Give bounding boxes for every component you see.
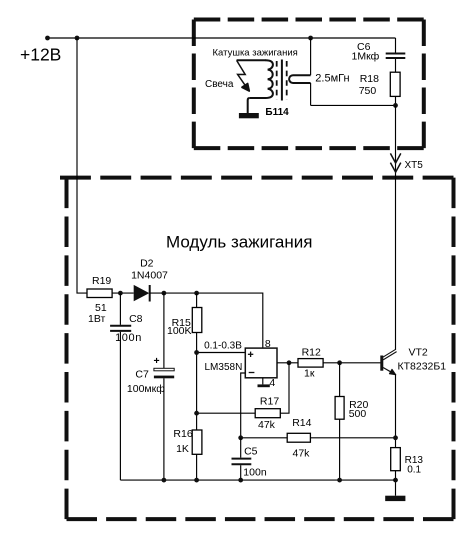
capacitor C7 (electrolytic) [154, 368, 174, 378]
svg-text:0.1-0.3В: 0.1-0.3В [204, 341, 242, 352]
svg-text:XT5: XT5 [405, 160, 424, 171]
label C8 [129, 313, 143, 325]
wire: R18 to bottom junction [395, 96, 397, 105]
svg-text:100K: 100K [167, 325, 192, 337]
svg-text:+: + [154, 355, 160, 367]
label 750 [359, 85, 377, 97]
svg-text:4: 4 [269, 377, 275, 389]
resistor R15 [192, 308, 202, 333]
svg-text:Б114: Б114 [265, 107, 289, 118]
wire: op-amp output [277, 362, 298, 364]
label 100n [115, 332, 142, 344]
wire: C5 branch [240, 438, 242, 480]
label 500 [349, 408, 367, 420]
spark plug arrow (lightning bolt) [237, 60, 250, 91]
label 0.1 [407, 464, 421, 475]
resistor R19 [87, 289, 112, 298]
label C7 [135, 368, 149, 380]
label Свеча [205, 79, 234, 90]
label 2.5мГн [315, 72, 349, 84]
label R17 [260, 395, 279, 407]
label R15 [172, 317, 191, 329]
svg-text:750: 750 [359, 85, 377, 97]
node: +12V terminal dot [45, 36, 50, 41]
wire: feedback to R17 [280, 363, 289, 413]
node: junction R20 bottom [337, 478, 342, 483]
wire: inverting node to R14 [241, 437, 288, 439]
label pin 4 [269, 377, 275, 389]
wire: primary bottom link [311, 104, 396, 106]
label R14 [292, 417, 311, 429]
wire: R14 to emitter node [310, 437, 395, 439]
svg-text:Свеча: Свеча [205, 79, 234, 90]
wire: R12 to base [323, 362, 380, 364]
svg-text:100n: 100n [115, 332, 142, 344]
node: junction output/feedback [287, 360, 292, 365]
ground: op-amp pin 4 [258, 384, 270, 387]
svg-text:47k: 47k [293, 447, 311, 459]
wire: C7 branch [163, 293, 165, 480]
label Б114 [265, 107, 289, 118]
transistor VT2 [382, 349, 397, 375]
label 0.1-0.3В [204, 341, 242, 352]
dashed box: ignition coil unit [194, 20, 424, 149]
dashed box: ignition module (Модуль зажигания) [60, 178, 454, 519]
resistor R13 [391, 448, 401, 471]
label R16 [173, 428, 192, 440]
svg-text:R12: R12 [302, 347, 321, 359]
core: dashed line left [276, 61, 278, 100]
resistor R18 [390, 72, 400, 96]
svg-text:1K: 1K [176, 443, 189, 455]
label R18 [360, 73, 379, 85]
node: junction C5/inverting [238, 435, 243, 440]
label 1K [176, 443, 189, 455]
svg-text:R19: R19 [92, 275, 111, 287]
ground: emitter resistor ground plate [385, 496, 405, 501]
op-amp U1 LM358N [245, 348, 277, 378]
resistor R16 [192, 430, 202, 454]
label C5 [244, 446, 258, 458]
label 1Вт [88, 313, 105, 325]
node: junction C8 tap [118, 291, 123, 296]
svg-text:1Вт: 1Вт [88, 313, 105, 325]
capacitor C6 [386, 54, 406, 59]
node: junction primary loop top [308, 36, 313, 41]
capacitor C8 [110, 326, 131, 331]
wire: emitter down [395, 375, 397, 448]
svg-text:47k: 47k [258, 419, 276, 431]
node: junction R16 bottom [194, 478, 199, 483]
label 51 [95, 302, 107, 314]
svg-text:LM358N: LM358N [205, 362, 243, 373]
label XT5 [405, 160, 424, 171]
wire: R20 top lead [339, 363, 341, 397]
wire: coil bottom to ground [248, 98, 250, 113]
node: junction +12V drop [75, 36, 80, 41]
svg-text:R14: R14 [292, 417, 311, 429]
svg-text:1N4007: 1N4007 [131, 270, 168, 282]
wire: down to XT5 and transistor collector [395, 105, 397, 350]
svg-text:1к: 1к [304, 368, 315, 380]
label 100K [167, 325, 192, 337]
wire: non-inverting input [197, 352, 246, 354]
label 100мкф [127, 383, 165, 395]
coil primary loop 2.5mH [289, 38, 311, 105]
label C6 [357, 41, 371, 53]
label Катушка зажигания [213, 48, 298, 59]
wire: R20 bottom lead [339, 419, 341, 480]
wire: R16 bottom lead [196, 454, 198, 480]
capacitor C5 [232, 459, 252, 465]
node: junction bottom rail right end [393, 478, 398, 483]
node: junction R17/R15/R16 [194, 411, 199, 416]
label pin 8 [265, 338, 271, 350]
svg-text:Модуль зажигания: Модуль зажигания [166, 233, 312, 252]
label +12В [20, 45, 61, 65]
wire: spark plug lead to coil top [237, 59, 266, 61]
label 100n (C5) [243, 467, 267, 479]
svg-text:C7: C7 [135, 368, 149, 380]
svg-text:0.1: 0.1 [407, 464, 421, 475]
label LM358N [205, 362, 243, 373]
resistor R20 [335, 397, 344, 420]
label 47k [258, 419, 276, 431]
wire: +12V top rail [48, 37, 396, 39]
label R19 [92, 275, 111, 287]
resistor R12 [298, 359, 323, 368]
wire: R13 bottom to ground [395, 471, 397, 496]
core: solid line [281, 60, 283, 101]
wire: R15 top lead [196, 293, 198, 307]
svg-text:VT2: VT2 [409, 347, 428, 359]
wire: R17 left to R15/R16 node [197, 412, 256, 414]
node: junction R20 tap [337, 360, 342, 365]
label 47k (R14) [293, 447, 311, 459]
label R13 [405, 455, 424, 466]
connector XT5 chevrons [390, 153, 400, 172]
resistor R17 [255, 409, 280, 418]
wire: pin 4 lead [262, 378, 264, 385]
wire: bottom rail [120, 479, 395, 481]
svg-text:1Мкф: 1Мкф [352, 51, 380, 63]
svg-text:R18: R18 [360, 73, 379, 85]
svg-text:R17: R17 [260, 395, 279, 407]
core: dashed line right [286, 61, 288, 100]
label R12 [302, 347, 321, 359]
svg-text:КТ8232Б1: КТ8232Б1 [398, 360, 447, 372]
wire: C8 branch [119, 293, 121, 480]
label + (C7 polarity) [154, 355, 160, 367]
svg-text:C5: C5 [244, 446, 258, 458]
svg-text:100n: 100n [243, 467, 267, 479]
label D2 [140, 258, 154, 270]
node: junction C7 bottom [162, 478, 167, 483]
wire: C6 to R18 [395, 59, 397, 72]
node: junction C7 tap [162, 291, 167, 296]
label 1Мкф [352, 51, 380, 63]
node: junction R15 tap [194, 291, 199, 296]
coil secondary winding (Б114) [250, 60, 273, 98]
node: junction emitter/R14/R13 [393, 435, 398, 440]
label КТ8232Б1 [398, 360, 447, 372]
label 1к [304, 368, 315, 380]
svg-text:2.5мГн: 2.5мГн [315, 72, 349, 84]
node: junction + input [194, 350, 199, 355]
svg-text:R16: R16 [173, 428, 192, 440]
wire: R19 to D2 [112, 292, 134, 294]
ground: coil ground plate [239, 113, 259, 118]
wire: R15 bottom to R16 top [196, 333, 198, 431]
svg-text:D2: D2 [140, 258, 154, 270]
wire: inverting input [241, 373, 246, 438]
wire: +12V drop to R19 [77, 38, 87, 293]
node: junction R18/primary [393, 103, 398, 108]
svg-text:100мкф: 100мкф [127, 383, 165, 395]
wire: C6 branch from rail [395, 38, 397, 53]
wire: D2 cathode rail to op-amp pin8 corner [150, 293, 263, 348]
label Модуль зажигания [166, 233, 312, 252]
svg-text:500: 500 [349, 408, 367, 420]
label VT2 [409, 347, 428, 359]
label R20 [349, 399, 368, 411]
resistor R14 [287, 433, 310, 442]
svg-text:+12В: +12В [20, 45, 61, 65]
diode D2 [134, 285, 150, 302]
svg-text:Катушка зажигания: Катушка зажигания [213, 48, 298, 59]
node: junction C5 bottom [238, 478, 243, 483]
label 1N4007 [131, 270, 168, 282]
svg-text:C8: C8 [129, 313, 143, 325]
svg-text:8: 8 [265, 338, 271, 350]
